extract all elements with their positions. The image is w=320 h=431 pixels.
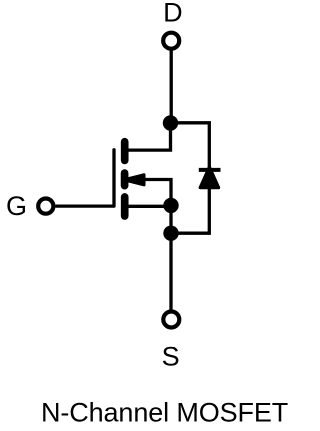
wire: node C down to terminal S bbox=[169, 233, 172, 310]
Q1 source channel bar bbox=[121, 197, 129, 216]
D1 cathode bar bbox=[199, 168, 221, 172]
diode D1 (body diode) bbox=[199, 167, 221, 188]
wire: MOSFET source to node B bbox=[126, 205, 171, 208]
Q1 body arrow (points to channel) bbox=[128, 175, 144, 186]
svg-text:N-Channel MOSFET: N-Channel MOSFET bbox=[41, 398, 288, 428]
wire: terminal D down to node A bbox=[170, 50, 173, 123]
svg-text:G: G bbox=[6, 191, 27, 221]
Q1 gate electrode line bbox=[112, 150, 115, 206]
terminal D bbox=[163, 33, 179, 49]
node A (drain junction) bbox=[163, 115, 178, 130]
Q1 body channel bar bbox=[121, 173, 129, 186]
wire: node B down to node C bbox=[169, 205, 172, 233]
svg-text:D: D bbox=[163, 0, 183, 28]
node C (diode return junction) bbox=[163, 226, 178, 241]
D1 anode triangle bbox=[200, 167, 218, 188]
transistor Q1 N-channel MOSFET symbol bbox=[114, 142, 144, 216]
wire: diode anode down and left to node C bbox=[171, 189, 209, 233]
terminal S bbox=[163, 312, 179, 328]
wire: node A down and left to MOSFET drain bbox=[126, 123, 171, 150]
wire: terminal G to gate bbox=[56, 204, 115, 207]
wire: node A right and down to diode cathode bbox=[171, 123, 210, 169]
wire: MOSFET body arrow right and down to node B bbox=[143, 180, 171, 206]
svg-text:S: S bbox=[162, 341, 180, 371]
node B (source junction) bbox=[163, 198, 178, 213]
terminal G bbox=[38, 199, 53, 214]
Q1 drain channel bar bbox=[121, 142, 129, 161]
